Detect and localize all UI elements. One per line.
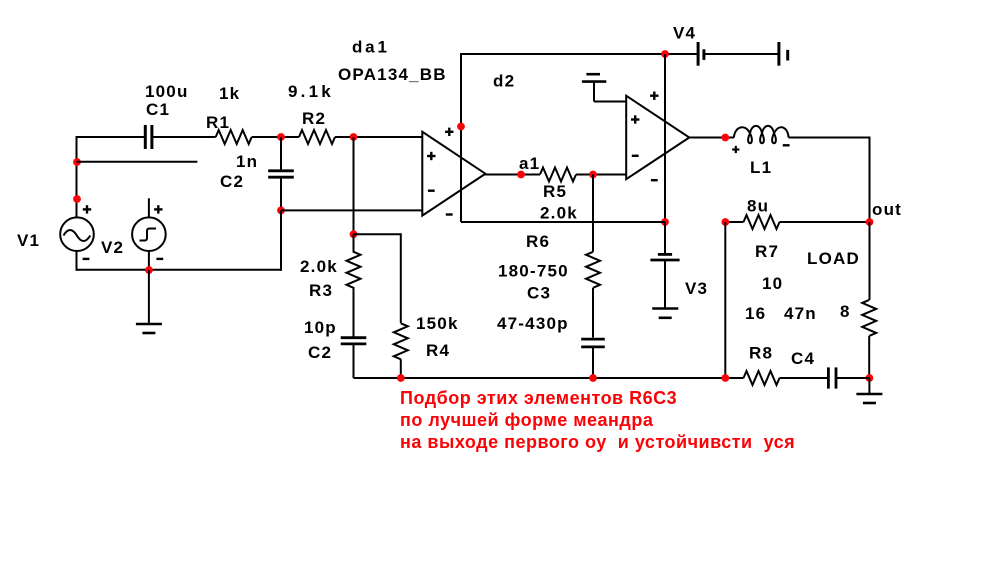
svg-text:V3: V3 bbox=[685, 279, 708, 298]
node dot rail to op2 supply bbox=[661, 50, 669, 58]
svg-text:R6: R6 bbox=[526, 232, 550, 251]
label R3 bbox=[309, 281, 333, 300]
wire R2out feedback vertical upper bbox=[353, 137, 355, 234]
svg-text:da1: da1 bbox=[352, 38, 390, 57]
wire C1 to R1 bbox=[153, 136, 216, 138]
svg-text:180-750: 180-750 bbox=[498, 262, 569, 281]
node dot V2 ground junction bbox=[145, 266, 153, 274]
battery V4 bbox=[698, 42, 788, 66]
node dot C2 bottom bbox=[277, 207, 285, 215]
label C3 bbox=[527, 284, 551, 303]
wire R8 to C4 bbox=[780, 377, 830, 379]
resistor R8 bbox=[744, 371, 780, 385]
wire R5 to U2 inverting bbox=[576, 174, 626, 176]
label R4 value 150k bbox=[416, 314, 459, 333]
wire out vertical upper bbox=[869, 137, 871, 223]
svg-text:8: 8 bbox=[840, 302, 851, 321]
node dot bottom mid bbox=[721, 374, 729, 382]
svg-text:R7: R7 bbox=[755, 242, 779, 261]
svg-text:47n: 47n bbox=[784, 304, 817, 323]
label V2 bbox=[101, 238, 124, 257]
svg-text:LOAD: LOAD bbox=[807, 249, 860, 268]
capacitor C3 bbox=[581, 339, 605, 347]
svg-text:d2: d2 bbox=[493, 72, 515, 91]
wire V1 top vertical bbox=[76, 136, 78, 218]
source V2 pulse bbox=[132, 217, 166, 251]
wire branch to R4 top bbox=[354, 233, 401, 235]
op-amp U2 supply plus mark bbox=[650, 92, 658, 100]
node dot load bottom bbox=[866, 374, 874, 382]
V1 minus mark bbox=[83, 258, 90, 260]
wire R3 top lead bbox=[353, 234, 355, 252]
svg-text:10: 10 bbox=[762, 274, 783, 293]
wire R4 bottom lead bbox=[400, 359, 402, 378]
wire R2 to op-amp U1 noninverting input bbox=[335, 136, 422, 138]
svg-text:47-430p: 47-430p bbox=[497, 314, 569, 333]
label net out bbox=[872, 200, 902, 219]
node dot R5 feedback junction bbox=[589, 171, 597, 179]
V2 minus mark bbox=[156, 258, 163, 260]
wire supply mid rail bbox=[461, 221, 665, 223]
V1 plus mark bbox=[83, 205, 91, 213]
L1 plus mark bbox=[732, 146, 739, 153]
capacitor C4 bbox=[828, 367, 836, 388]
node dot R1-R2-C2 junction bbox=[277, 133, 285, 141]
svg-text:1n: 1n bbox=[236, 152, 258, 171]
label L1 bbox=[750, 158, 772, 177]
wire C3 to bottom rail bbox=[592, 346, 594, 378]
label R8 bbox=[749, 344, 773, 363]
label da1 bbox=[352, 38, 390, 57]
label net a1 bbox=[519, 154, 540, 173]
svg-text:V2: V2 bbox=[101, 238, 124, 257]
svg-text:C1: C1 bbox=[146, 100, 170, 119]
label C2b value 10p bbox=[304, 318, 337, 337]
node dot feedback branch bbox=[350, 230, 358, 238]
wire inverting input bbox=[281, 209, 422, 211]
wire R6 top bbox=[592, 175, 594, 252]
label R4 bbox=[426, 341, 450, 360]
L1 minus mark bbox=[783, 144, 790, 146]
node dot R4 bottom bbox=[397, 374, 405, 382]
label R5 bbox=[543, 182, 567, 201]
wire V2 top pin bbox=[148, 198, 150, 218]
capacitor C2 1n bbox=[268, 171, 294, 177]
label R5 value 2.0k bbox=[540, 204, 578, 223]
svg-text:V1: V1 bbox=[17, 231, 40, 250]
node dot V3 junction bbox=[661, 218, 669, 226]
label R2 value 9.1k bbox=[288, 82, 334, 101]
wire R1 to R2 bbox=[252, 136, 299, 138]
wire out to load bbox=[869, 222, 871, 300]
node dot C3 bottom bbox=[589, 374, 597, 382]
ground for V1 V2 bbox=[136, 270, 162, 333]
label R2 bbox=[302, 109, 326, 128]
svg-text:R5: R5 bbox=[543, 182, 567, 201]
wire U1 output bbox=[484, 174, 540, 176]
wire U2 supply vertical bbox=[664, 54, 666, 222]
label C2 bbox=[220, 172, 244, 191]
wire positive rail bbox=[460, 53, 699, 55]
svg-text:R2: R2 bbox=[302, 109, 326, 128]
label LOAD bbox=[807, 249, 860, 268]
wire R6 to C3 bbox=[592, 288, 594, 338]
wire C2 top bbox=[280, 137, 282, 171]
wire R4 top vertical bbox=[400, 233, 402, 323]
resistor R5 bbox=[540, 168, 576, 182]
node dot out bbox=[866, 218, 874, 226]
svg-text:L1: L1 bbox=[750, 158, 772, 177]
label 16 bbox=[745, 304, 766, 323]
inductor L1 bbox=[734, 126, 789, 143]
annotation line 2 bbox=[400, 410, 654, 430]
node dot U2 output pin bbox=[721, 134, 729, 142]
wire main top rail from V1 to C1 bbox=[77, 136, 146, 138]
svg-text:по лучшей форме меандра: по лучшей форме меандра bbox=[400, 410, 654, 430]
wire L1 to out corner bbox=[789, 137, 870, 139]
ground inverted for U2 noninverting bbox=[582, 74, 626, 101]
V2 plus mark bbox=[154, 205, 162, 213]
svg-text:10p: 10p bbox=[304, 318, 337, 337]
label OPA134_BB bbox=[338, 65, 447, 84]
svg-text:a1: a1 bbox=[519, 154, 540, 173]
op-amp U1 supply plus mark bbox=[445, 128, 453, 136]
wire V2 bottom stub bbox=[148, 251, 150, 270]
svg-text:C3: C3 bbox=[527, 284, 551, 303]
label 47n bbox=[784, 304, 817, 323]
svg-text:R1: R1 bbox=[206, 113, 230, 132]
wire bottom return V1 to C2 branch bbox=[77, 269, 282, 271]
svg-text:16: 16 bbox=[745, 304, 766, 323]
svg-text:Подбор этих элементов R6C3: Подбор этих элементов R6C3 bbox=[400, 388, 677, 408]
op-amp U1 plus in mark bbox=[427, 152, 435, 160]
node dot R2 output bbox=[350, 133, 358, 141]
resistor R6 bbox=[586, 252, 600, 288]
svg-text:R4: R4 bbox=[426, 341, 450, 360]
label C2 value 1n bbox=[236, 152, 258, 171]
label C4 bbox=[791, 349, 815, 368]
op-amp U2 minus in mark bbox=[632, 155, 639, 157]
node dot V1 branch upper bbox=[73, 158, 81, 166]
label R7 bbox=[755, 242, 779, 261]
wire R7 stub left bbox=[725, 221, 743, 223]
wire bottom rail left bbox=[354, 377, 744, 379]
op-amp U1 triangle bbox=[422, 132, 485, 216]
node dot U1 supply pin bbox=[457, 123, 465, 131]
svg-text:100u: 100u bbox=[145, 82, 189, 101]
wire op2 branch vertical bbox=[724, 222, 726, 378]
svg-text:R8: R8 bbox=[749, 344, 773, 363]
resistor LOAD 8 bbox=[862, 300, 876, 336]
op-amp U2 plus in mark bbox=[631, 115, 639, 123]
label C1 bbox=[146, 100, 170, 119]
label R7 value 10 bbox=[762, 274, 783, 293]
wire C4 to load bottom bbox=[836, 377, 870, 379]
label V4 bbox=[673, 24, 696, 43]
op-amp U2 supply minus mark bbox=[651, 179, 658, 181]
svg-text:1k: 1k bbox=[219, 84, 240, 103]
wire U1 supply vertical bbox=[460, 54, 462, 222]
wire C2b bottom to ground rail bbox=[353, 344, 355, 379]
wire V1 bottom stub bbox=[76, 251, 78, 271]
resistor R4 bbox=[394, 323, 408, 359]
label d2 bbox=[493, 72, 515, 91]
svg-text:V4: V4 bbox=[673, 24, 696, 43]
resistor R1 bbox=[216, 130, 252, 144]
label R1 bbox=[206, 113, 230, 132]
label R3 value 2.0k bbox=[300, 257, 338, 276]
svg-text:150k: 150k bbox=[416, 314, 459, 333]
annotation line 1 bbox=[400, 388, 677, 408]
label V3 bbox=[685, 279, 708, 298]
label R6 bbox=[526, 232, 550, 251]
op-amp U2 triangle bbox=[626, 96, 689, 180]
op-amp U1 minus in mark bbox=[428, 190, 435, 192]
source V1 sine bbox=[60, 217, 94, 251]
wire C2 bottom to inverting input bbox=[280, 177, 282, 210]
label C1 value 100u bbox=[145, 82, 189, 101]
battery V3 bbox=[650, 222, 679, 309]
svg-text:2.0k: 2.0k bbox=[540, 204, 578, 223]
svg-text:9.1k: 9.1k bbox=[288, 82, 334, 101]
node dot R7 left bbox=[721, 218, 729, 226]
svg-text:out: out bbox=[872, 200, 902, 219]
resistor R2 bbox=[299, 130, 335, 144]
wire U2 output bbox=[688, 137, 734, 139]
label V1 bbox=[17, 231, 40, 250]
op-amp U1 supply minus mark bbox=[446, 213, 453, 215]
wire C2 to return bbox=[280, 210, 282, 270]
svg-text:8u: 8u bbox=[747, 197, 769, 216]
label C3 value 47-430p bbox=[497, 314, 569, 333]
svg-text:2.0k: 2.0k bbox=[300, 257, 338, 276]
wire R3 to C2b bbox=[353, 287, 355, 338]
node dot V1 pin bbox=[73, 195, 81, 203]
label L1 value 8u bbox=[747, 197, 769, 216]
svg-text:R3: R3 bbox=[309, 281, 333, 300]
capacitor C2 10p bbox=[341, 338, 367, 344]
label C2b bbox=[308, 343, 332, 362]
label 8 bbox=[840, 302, 851, 321]
resistor R3 bbox=[347, 252, 361, 288]
svg-text:C4: C4 bbox=[791, 349, 815, 368]
svg-text:на выходе первого оу и устойч: на выходе первого оу и устойчивсти уся bbox=[400, 432, 795, 452]
ground for V3 bbox=[652, 309, 678, 318]
label R1 value 1k bbox=[219, 84, 240, 103]
svg-text:C2: C2 bbox=[220, 172, 244, 191]
svg-text:C2: C2 bbox=[308, 343, 332, 362]
label R6 value 180-750 bbox=[498, 262, 569, 281]
resistor R7 bbox=[744, 215, 780, 229]
svg-text:OPA134_BB: OPA134_BB bbox=[338, 65, 447, 84]
node dot a1 output pin bbox=[517, 171, 525, 179]
ground bottom right bbox=[856, 378, 882, 403]
wire load to bottom bbox=[868, 336, 870, 378]
wire R7 to out bbox=[780, 221, 870, 223]
annotation line 3 bbox=[400, 432, 795, 452]
wire stub node dangling bbox=[77, 161, 198, 163]
capacitor C1 bbox=[145, 125, 152, 149]
